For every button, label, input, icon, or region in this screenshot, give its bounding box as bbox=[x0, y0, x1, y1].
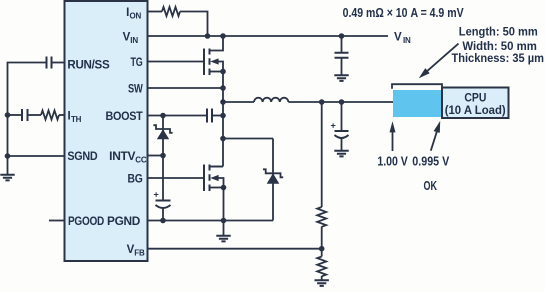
node INTVCC bbox=[160, 153, 166, 159]
node inductor junction bbox=[220, 99, 226, 105]
node Q2 source bbox=[221, 185, 227, 191]
ground C5 bbox=[334, 151, 348, 157]
arrow 0.995V pointer bbox=[431, 121, 440, 151]
node Q2 source/PGND bbox=[221, 218, 227, 224]
svg-text:0.49 mΩ × 10 A = 4.9 mV: 0.49 mΩ × 10 A = 4.9 mV bbox=[343, 5, 464, 20]
capacitor C3 (INTVCC bypass, polarized) bbox=[154, 190, 171, 221]
wire C2 to SW chain bbox=[212, 115, 223, 117]
svg-text:TH: TH bbox=[71, 115, 82, 124]
resistor R1 (ION) bbox=[162, 7, 180, 16]
node ION/VIN junction bbox=[205, 33, 211, 39]
svg-text:OK: OK bbox=[424, 178, 438, 193]
svg-text:+: + bbox=[154, 190, 159, 200]
capacitor C2 (boost) bbox=[207, 109, 212, 123]
wire TG pin to Q1 gate bbox=[148, 61, 203, 63]
svg-text:INTV: INTV bbox=[109, 151, 136, 163]
node FB bbox=[319, 246, 325, 252]
wire PGND line bbox=[148, 220, 273, 222]
ground SGND bbox=[0, 156, 14, 180]
svg-text:BOOST: BOOST bbox=[106, 111, 143, 123]
svg-text:TG: TG bbox=[131, 57, 143, 69]
node SGND rail bbox=[5, 153, 11, 159]
wire SW pin to node bbox=[148, 87, 223, 89]
wire VOUT down to R2 bbox=[321, 102, 323, 207]
capacitor C5 (output, polarized) bbox=[331, 102, 349, 151]
bracket trace length bbox=[392, 84, 442, 89]
node SW bbox=[220, 85, 226, 91]
diode D1 (INTVCC to BOOST schottky) bbox=[153, 116, 172, 156]
svg-text:Length: 50 mm: Length: 50 mm bbox=[459, 25, 538, 39]
svg-text:1.00 V: 1.00 V bbox=[377, 153, 408, 168]
node Q1 drain / VIN junction bbox=[220, 33, 226, 39]
svg-text:Thickness: 35 µm: Thickness: 35 µm bbox=[451, 51, 544, 65]
svg-text:PGND: PGND bbox=[107, 216, 140, 228]
transistor Q2 bottom NMOS bbox=[204, 165, 224, 192]
svg-text:IN: IN bbox=[130, 36, 138, 45]
svg-text:CC: CC bbox=[135, 155, 147, 164]
node BOOST cap junction bbox=[220, 113, 226, 119]
wire R1 to VIN line bbox=[180, 12, 208, 37]
capacitor C6 (ITH) bbox=[22, 109, 28, 121]
IC U1 buck controller body bbox=[65, 1, 148, 261]
wire RUN/SS left bbox=[8, 63, 47, 157]
diode D2 (freewheel schottky) bbox=[263, 139, 283, 221]
wire PGOOD stub bbox=[49, 220, 65, 222]
wire R3 to ground bbox=[321, 276, 323, 280]
svg-text:0.995 V: 0.995 V bbox=[412, 153, 449, 168]
node C3/PGND bbox=[160, 218, 166, 224]
wire ITH pin to resistor bbox=[59, 114, 65, 116]
wire Q2 source to PGND line bbox=[223, 188, 225, 221]
ground C4 bbox=[334, 75, 348, 81]
wire SW vertical chain bbox=[222, 72, 224, 167]
svg-text:SGND: SGND bbox=[67, 151, 97, 163]
wire BOOST pin to capacitor C2 bbox=[148, 115, 207, 117]
svg-text:IN: IN bbox=[403, 36, 411, 45]
ground FB divider bbox=[315, 280, 329, 286]
node VOUT/FB divider bbox=[319, 99, 325, 105]
node D2 branch junction bbox=[220, 136, 226, 142]
inductor L1 bbox=[254, 98, 288, 102]
wire R2 to FB node bbox=[321, 227, 323, 257]
svg-text:CPU: CPU bbox=[464, 92, 486, 104]
node Q1 source bbox=[220, 69, 226, 75]
wire RUN/SS cap to pin bbox=[52, 62, 65, 64]
CPU load box bbox=[442, 88, 509, 119]
capacitor C1 (RUN/SS) bbox=[47, 57, 52, 69]
capacitor C4 (VIN bypass) bbox=[335, 36, 349, 75]
node ITH rail bbox=[5, 112, 11, 118]
svg-text:BG: BG bbox=[128, 173, 143, 185]
wire inductor to trace bbox=[288, 101, 393, 103]
wire Q2 drain to SW chain bbox=[210, 166, 224, 168]
svg-text:(10 A Load): (10 A Load) bbox=[445, 105, 506, 117]
node VIN bypass cap bbox=[339, 33, 345, 39]
wire rail to C6 bbox=[8, 114, 23, 116]
resistor R2 (FB top) bbox=[317, 207, 326, 227]
svg-text:SW: SW bbox=[128, 83, 143, 95]
svg-text:PGOOD: PGOOD bbox=[68, 216, 104, 228]
wire INTVCC down to capacitor C3 bbox=[162, 156, 164, 201]
wire SW chain to diode D2 bbox=[223, 138, 273, 140]
wire BG pin to Q2 gate bbox=[148, 177, 203, 179]
resistor R4 (ITH) bbox=[41, 111, 59, 120]
wire ION pin to resistor R1 bbox=[148, 11, 162, 13]
wire C6 to R4 bbox=[28, 114, 42, 116]
wire VFB pin to FB node bbox=[148, 248, 322, 250]
PCB trace block bbox=[393, 90, 442, 117]
svg-text:FB: FB bbox=[134, 249, 145, 258]
node D1/BOOST junction bbox=[160, 113, 166, 119]
node VOUT/output cap bbox=[339, 99, 345, 105]
svg-text:+: + bbox=[331, 121, 336, 131]
svg-text:V: V bbox=[394, 32, 402, 44]
arrow 1.00V pointer bbox=[390, 121, 396, 151]
wire inductor line left bbox=[223, 101, 254, 103]
transistor Q1 top NMOS bbox=[204, 36, 223, 75]
wire VIN line bbox=[148, 35, 388, 37]
wire SGND pin to rail bbox=[8, 155, 65, 157]
svg-text:ON: ON bbox=[130, 11, 142, 20]
arrow annotation to bracket bbox=[419, 44, 459, 79]
wire INTVCC pin to node bbox=[148, 155, 163, 157]
resistor R3 (FB bottom) bbox=[317, 257, 326, 277]
svg-text:RUN/SS: RUN/SS bbox=[67, 59, 110, 71]
ground PGND bbox=[216, 221, 230, 242]
